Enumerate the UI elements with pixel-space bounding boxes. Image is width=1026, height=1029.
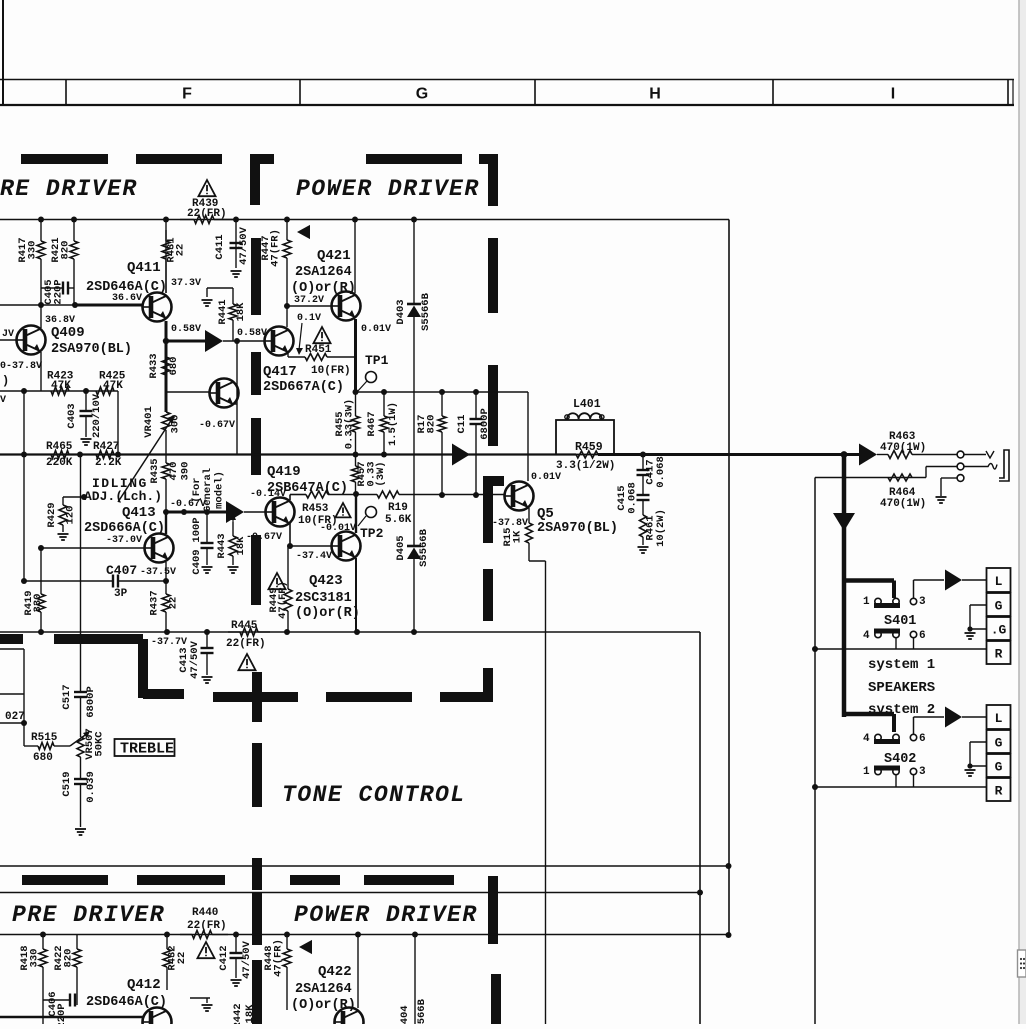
svg-text:22: 22 bbox=[175, 244, 187, 257]
TREBLE boxed label bbox=[115, 739, 175, 758]
svg-text:R442: R442 bbox=[232, 1003, 244, 1024]
svg-text:36.6V: 36.6V bbox=[112, 293, 142, 304]
resistor R447 bbox=[283, 220, 291, 307]
svg-text:470: 470 bbox=[168, 462, 180, 481]
output jack tip bbox=[964, 451, 994, 458]
svg-text:330: 330 bbox=[29, 949, 41, 968]
POWER DRIVER block left dashed border bbox=[251, 238, 261, 605]
label SPEAKERS bbox=[868, 680, 935, 696]
svg-text:POWER DRIVER: POWER DRIVER bbox=[296, 176, 480, 202]
label C403 value bbox=[66, 393, 103, 438]
svg-text:4: 4 bbox=[863, 630, 870, 642]
capacitor C415 bbox=[637, 495, 650, 515]
label Q419 bbox=[267, 464, 301, 480]
ground for R429 bbox=[58, 534, 69, 540]
ground for C519 bbox=[75, 829, 86, 835]
wire: treble line bbox=[24, 745, 38, 747]
svg-text:R451: R451 bbox=[305, 344, 332, 356]
label R467 value bbox=[366, 402, 399, 446]
switch S402 contacts row1 bbox=[863, 733, 926, 745]
wire: Q417 emitter join bbox=[287, 352, 289, 357]
wire: S402 feed bbox=[844, 714, 894, 732]
wire: R429 top link bbox=[63, 494, 87, 500]
svg-text:10(FR): 10(FR) bbox=[311, 365, 351, 377]
grid column label I bbox=[891, 86, 895, 103]
label R464 bbox=[880, 487, 926, 510]
label 0.58V (left) bbox=[171, 324, 201, 335]
svg-text:0.068: 0.068 bbox=[627, 482, 639, 514]
svg-text:22: 22 bbox=[176, 952, 188, 965]
svg-text:47(FR): 47(FR) bbox=[277, 581, 289, 619]
wire: Q411 emitter column bbox=[165, 321, 168, 341]
resistor R445 bbox=[228, 628, 270, 636]
transistor Q421 bbox=[332, 292, 361, 321]
wire: Q421 base line bbox=[287, 305, 333, 307]
svg-text:L: L bbox=[995, 711, 1003, 726]
label Q421 type bbox=[295, 265, 352, 280]
svg-text:820: 820 bbox=[60, 241, 72, 260]
svg-text:Q411: Q411 bbox=[127, 260, 161, 276]
node: rail corner bottom bbox=[697, 890, 703, 896]
svg-text:2SA970(BL): 2SA970(BL) bbox=[537, 521, 618, 536]
POWER DRIVER block right border step corner bbox=[483, 476, 504, 543]
svg-text:R445: R445 bbox=[231, 620, 258, 632]
section title TONE CONTROL bbox=[282, 782, 466, 808]
svg-text:2SD667A(C): 2SD667A(C) bbox=[263, 380, 344, 395]
label Q5 voltage bbox=[492, 518, 528, 529]
ground for R443 bbox=[228, 567, 239, 573]
label R445 bbox=[226, 620, 266, 650]
label Q422 type bbox=[295, 982, 352, 997]
label R15 value bbox=[502, 528, 524, 547]
label Q423 type bbox=[295, 591, 352, 606]
inductor L401 coil bbox=[565, 413, 604, 419]
svg-text:S402: S402 bbox=[884, 752, 916, 767]
svg-text:G: G bbox=[416, 86, 428, 103]
resistor R421 bbox=[70, 220, 78, 306]
svg-text:V: V bbox=[0, 395, 6, 406]
wire: TP2 line bbox=[290, 495, 505, 501]
arrow from IDLING to VR401 bbox=[118, 415, 175, 502]
svg-text:1.5(1W): 1.5(1W) bbox=[387, 402, 399, 446]
label Q421 bbox=[317, 248, 351, 264]
svg-text:PRE DRIVER: PRE DRIVER bbox=[12, 902, 165, 928]
svg-text:Q417: Q417 bbox=[263, 364, 297, 380]
label S401 bbox=[884, 614, 916, 629]
resistor R467 bbox=[380, 392, 388, 455]
svg-text:2SA1264: 2SA1264 bbox=[295, 265, 352, 280]
label Q409 bbox=[51, 325, 85, 341]
svg-text:47K: 47K bbox=[103, 380, 123, 392]
svg-text:3P: 3P bbox=[114, 588, 128, 600]
ground for sys1 bbox=[965, 633, 976, 639]
wire: 37V mid line bbox=[356, 391, 529, 393]
svg-text:system 1: system 1 bbox=[868, 657, 935, 673]
node: drive junction bbox=[234, 338, 240, 344]
label R437 value bbox=[149, 590, 180, 615]
label R435 values bbox=[168, 462, 226, 513]
ground for C413 bbox=[202, 677, 213, 683]
svg-text:VR401: VR401 bbox=[143, 406, 155, 438]
svg-text:470(1W): 470(1W) bbox=[880, 498, 926, 510]
svg-text:3.3(1/2W): 3.3(1/2W) bbox=[556, 460, 615, 472]
ground for C403 bbox=[81, 439, 92, 445]
inductor L401 box bbox=[556, 420, 614, 455]
transistor Q409 bbox=[17, 326, 46, 355]
transistor Q5 bbox=[505, 482, 534, 511]
node: mid line junctions bbox=[353, 389, 480, 458]
transistor Q411 bbox=[143, 293, 172, 322]
wire: +37V top rail bbox=[0, 219, 729, 221]
svg-text:R453: R453 bbox=[302, 503, 329, 515]
POWER DRIVER block bottom-right corner bbox=[440, 668, 493, 702]
svg-text:50KC: 50KC bbox=[94, 731, 106, 757]
PRE DRIVER block bottom dashed border bbox=[0, 634, 184, 699]
signal arrow on output rail bbox=[452, 444, 470, 466]
svg-text:D405: D405 bbox=[395, 535, 407, 560]
label S402 bbox=[884, 752, 916, 767]
svg-text:22: 22 bbox=[168, 597, 180, 610]
wire: Q413 collector bbox=[163, 509, 169, 534]
svg-text:47/50V: 47/50V bbox=[241, 940, 253, 979]
wire: Q411 base line bbox=[0, 304, 143, 306]
label R449 value bbox=[268, 581, 289, 619]
svg-text:Q409: Q409 bbox=[51, 325, 85, 341]
svg-text:L: L bbox=[995, 574, 1003, 589]
test point TP1 bbox=[357, 353, 389, 392]
svg-text:G: G bbox=[995, 760, 1003, 775]
svg-text:1: 1 bbox=[863, 596, 870, 608]
ground for jack bbox=[936, 497, 947, 503]
svg-text:C403: C403 bbox=[66, 403, 78, 428]
svg-text:S5566B: S5566B bbox=[420, 292, 432, 331]
svg-text:Q5: Q5 bbox=[537, 506, 554, 522]
node: emitter node bbox=[353, 389, 359, 395]
svg-text:390: 390 bbox=[180, 462, 192, 481]
label Q421 option bbox=[291, 281, 356, 296]
wire: S401 return line bbox=[812, 646, 986, 652]
resistor R19 bbox=[377, 491, 399, 498]
resistor R429 bbox=[59, 497, 67, 532]
label D405 bbox=[395, 528, 430, 567]
POWER DRIVER block right dashed border bbox=[488, 238, 498, 446]
resistor R423 bbox=[51, 387, 69, 395]
svg-text:F: F bbox=[182, 86, 192, 103]
node: base line junctions bbox=[38, 302, 78, 308]
label C405 value bbox=[43, 279, 65, 304]
label R463 bbox=[880, 431, 926, 454]
signal arrow on drive line bbox=[205, 330, 223, 352]
label system 2 bbox=[868, 702, 935, 718]
capacitor C405 bbox=[41, 282, 74, 295]
svg-text:-0.67V: -0.67V bbox=[199, 420, 235, 431]
label C406 value bbox=[47, 991, 68, 1028]
resistor R457 bbox=[352, 455, 360, 495]
bottom POWER DRIVER right dashed border bbox=[488, 876, 501, 1024]
label Q411 type bbox=[86, 280, 167, 295]
svg-text:JV: JV bbox=[2, 329, 14, 340]
label R-18K bottom bbox=[232, 1003, 256, 1028]
node: C407 line left bbox=[21, 578, 27, 584]
label 0.01V (Q5) bbox=[531, 472, 561, 483]
arrow R443 to line bbox=[230, 513, 236, 522]
svg-text:TP1: TP1 bbox=[365, 353, 389, 368]
label Q422 option bbox=[291, 998, 356, 1013]
label Q409 type bbox=[51, 342, 132, 357]
svg-text:D403: D403 bbox=[395, 299, 407, 324]
POWER DRIVER block top-right corner bbox=[479, 154, 498, 206]
svg-text:680: 680 bbox=[168, 357, 180, 376]
resistor R448 bbox=[283, 935, 291, 1011]
resistor R464 bbox=[888, 474, 912, 481]
label R19 bbox=[385, 502, 412, 526]
svg-text:ADJ.(Lch.): ADJ.(Lch.) bbox=[84, 489, 162, 504]
label R421 value bbox=[50, 237, 72, 262]
label Q412 type bbox=[86, 995, 167, 1010]
resistor R427 bbox=[96, 451, 114, 459]
transistor Q415 bbox=[210, 379, 239, 408]
svg-text:22(FR): 22(FR) bbox=[187, 208, 227, 220]
transistor Q413 bbox=[145, 534, 174, 563]
label Q422 bbox=[318, 964, 352, 980]
ground for R461 bbox=[638, 547, 649, 553]
svg-text:S401: S401 bbox=[884, 614, 916, 629]
svg-text:R: R bbox=[995, 784, 1003, 799]
label C409 value bbox=[191, 517, 203, 574]
label C413 value bbox=[178, 640, 201, 679]
ground for C411 bbox=[231, 271, 242, 277]
svg-text:C519: C519 bbox=[61, 771, 73, 796]
diode D405 bbox=[407, 546, 421, 559]
ground for C412 bbox=[231, 980, 242, 986]
resistor R422 bbox=[73, 935, 81, 996]
wire: Q409 collector bbox=[40, 305, 42, 328]
svg-text:0.33(3W): 0.33(3W) bbox=[344, 399, 356, 449]
svg-text:C407: C407 bbox=[106, 563, 137, 578]
POWER DRIVER block right dashed border lower bbox=[483, 569, 493, 621]
resistor R419 bbox=[37, 548, 45, 632]
svg-text:Q423: Q423 bbox=[309, 573, 343, 589]
svg-text:0.01V: 0.01V bbox=[361, 324, 391, 335]
svg-text:22(FR): 22(FR) bbox=[187, 920, 227, 932]
label C411 value bbox=[214, 226, 250, 265]
wire: Q422 collector bbox=[357, 935, 359, 1009]
svg-text:1K: 1K bbox=[512, 530, 524, 543]
label Q411 bbox=[127, 260, 161, 276]
svg-text:-37.4V: -37.4V bbox=[296, 551, 332, 562]
svg-text:G: G bbox=[995, 736, 1003, 751]
wire: -37V bottom rail bbox=[0, 631, 700, 633]
wire: C517 column upper bbox=[80, 455, 82, 693]
signal arrow to speakers bbox=[859, 444, 877, 466]
svg-text:R: R bbox=[995, 647, 1003, 662]
svg-text:3: 3 bbox=[919, 596, 926, 608]
label VR507 bbox=[84, 728, 106, 760]
svg-text:R435: R435 bbox=[149, 458, 161, 483]
label Q411 voltage 37.3V bbox=[171, 278, 201, 289]
transistor Q422 bbox=[335, 1008, 364, 1029]
svg-text:680: 680 bbox=[33, 752, 53, 764]
resistor R437 bbox=[162, 581, 170, 632]
label Q419 type bbox=[267, 481, 348, 496]
wire: R447-Q421 base column bbox=[284, 303, 290, 327]
svg-text:-0.67V: -0.67V bbox=[246, 532, 282, 543]
wire: Q409 base stub bbox=[0, 339, 17, 341]
wire: R433 column bbox=[165, 341, 168, 412]
capacitor C417 bbox=[637, 455, 650, 496]
wire: left edge stubs bbox=[0, 649, 27, 746]
svg-text:37.2V: 37.2V bbox=[294, 295, 324, 306]
label edge paren bbox=[2, 374, 9, 388]
label R431 value bbox=[166, 237, 187, 262]
label Q409 voltage 36.8V bbox=[45, 315, 75, 326]
left arrow marker (top) bbox=[297, 225, 310, 239]
label R427 bbox=[93, 441, 122, 469]
svg-text:47K: 47K bbox=[51, 380, 71, 392]
wire: rail corner vertical bbox=[699, 632, 701, 1024]
svg-text:S5566B: S5566B bbox=[418, 528, 430, 567]
resistor R461 bbox=[640, 515, 647, 545]
wire: right vertical feed bbox=[728, 220, 730, 936]
svg-text:(3W): (3W) bbox=[375, 461, 387, 486]
speaker terminal box L (sys2) bbox=[987, 705, 1011, 729]
warning symbol near R453 bbox=[335, 503, 350, 517]
wire: Q5 collector riser bbox=[527, 392, 529, 481]
svg-text:R467: R467 bbox=[366, 411, 378, 436]
wire: Q413 emitter bbox=[165, 562, 167, 581]
svg-text:100P: 100P bbox=[191, 517, 203, 542]
label Q413 bbox=[122, 505, 156, 521]
label VR401 bbox=[143, 406, 182, 438]
ground for sys2 bbox=[965, 770, 976, 776]
svg-text:1: 1 bbox=[863, 766, 870, 778]
svg-text:C412: C412 bbox=[218, 945, 230, 970]
resistor R465 bbox=[51, 451, 69, 459]
label C519 value bbox=[61, 771, 97, 803]
svg-text:47(FR): 47(FR) bbox=[270, 229, 282, 267]
resistor R439 bbox=[180, 216, 236, 224]
svg-text:47/50V: 47/50V bbox=[189, 640, 201, 679]
svg-text:.G: .G bbox=[991, 623, 1007, 638]
svg-text:D404: D404 bbox=[399, 1005, 411, 1024]
resistor R451 bbox=[288, 354, 356, 361]
wire: bottom supply rail bbox=[0, 934, 728, 936]
label C415 value bbox=[616, 482, 639, 514]
label C517 value bbox=[61, 684, 97, 717]
transistor Q412 bbox=[143, 1008, 172, 1029]
svg-text:): ) bbox=[2, 374, 9, 388]
wire: Q412 base line bbox=[0, 1016, 143, 1019]
node: C409 junction bbox=[181, 509, 210, 515]
svg-text:H: H bbox=[649, 86, 661, 103]
svg-text:6800P: 6800P bbox=[479, 408, 491, 440]
wire: arrow to L box 2 bbox=[962, 716, 986, 718]
svg-text:0.58V: 0.58V bbox=[171, 324, 201, 335]
node: C417 junction bbox=[640, 452, 646, 458]
resistor R431 bbox=[162, 230, 170, 293]
node: output junction bbox=[841, 451, 848, 458]
resistor R418 bbox=[39, 935, 47, 1025]
wire: Q409 emitter bbox=[40, 352, 42, 391]
wire: Q411 collector bbox=[165, 220, 167, 294]
svg-text:6: 6 bbox=[919, 630, 926, 642]
capacitor C517 bbox=[74, 692, 87, 737]
wire: Q421 collector bbox=[354, 220, 356, 294]
svg-text:R433: R433 bbox=[148, 353, 160, 378]
bottom section boundary lines bbox=[0, 866, 728, 893]
left arrow marker (bottom) bbox=[299, 940, 312, 954]
svg-text:6: 6 bbox=[919, 733, 926, 745]
resistor R455 bbox=[352, 392, 360, 455]
label Q423 option bbox=[295, 606, 360, 621]
svg-text:R441: R441 bbox=[217, 299, 229, 324]
svg-text:4: 4 bbox=[863, 733, 870, 745]
label edge -37.8V bbox=[0, 361, 42, 372]
svg-text:G: G bbox=[995, 599, 1003, 614]
wire: output rail bbox=[0, 453, 860, 455]
svg-text:120: 120 bbox=[65, 506, 77, 525]
resistor R449 bbox=[284, 543, 293, 632]
switch S401 contacts row2 bbox=[863, 629, 926, 643]
label R432 value bbox=[167, 945, 189, 970]
label R433 value bbox=[148, 353, 180, 378]
capacitor C406 bbox=[43, 994, 77, 1007]
label L401 bbox=[573, 398, 601, 411]
svg-text:2.2K: 2.2K bbox=[95, 457, 122, 469]
svg-text:Q412: Q412 bbox=[127, 977, 161, 993]
border frame: top coordinate band bbox=[0, 0, 1014, 105]
svg-text:C411: C411 bbox=[214, 234, 226, 259]
wire: 0.58V drive line bbox=[166, 340, 264, 343]
label Q417 bbox=[263, 364, 351, 380]
ground bracket sys1 bbox=[967, 605, 986, 632]
capacitor C409 bbox=[201, 512, 214, 565]
label R451 bbox=[305, 344, 332, 356]
label Q423 bbox=[309, 573, 343, 589]
label R419 value bbox=[23, 590, 44, 615]
wire: D404 column bbox=[414, 935, 416, 1025]
label Q419 voltage bbox=[250, 489, 286, 500]
node: R17/C11 bottom bbox=[439, 492, 479, 498]
svg-text:330: 330 bbox=[32, 594, 44, 613]
variable resistor VR401 bbox=[162, 412, 170, 430]
switch S402 contacts row2 bbox=[863, 766, 926, 779]
svg-text:820: 820 bbox=[426, 415, 438, 434]
resistor R463 bbox=[877, 451, 957, 459]
capacitor C413 bbox=[201, 632, 214, 675]
svg-text:RE DRIVER: RE DRIVER bbox=[0, 176, 138, 202]
capacitor C407 bbox=[24, 575, 166, 588]
svg-text:R440: R440 bbox=[192, 907, 218, 919]
capacitor C412 bbox=[230, 935, 243, 979]
label Q415 voltage -0.67V bbox=[199, 420, 235, 431]
transistor Q423 bbox=[332, 532, 361, 561]
svg-text:-37.8V: -37.8V bbox=[492, 518, 528, 529]
svg-text:-37.7V: -37.7V bbox=[151, 637, 187, 648]
section title PRE DRIVER (bottom) bbox=[12, 902, 165, 928]
svg-text:-0.67V: -0.67V bbox=[170, 499, 206, 510]
wire: S401 row2 drops bbox=[896, 638, 914, 649]
warning symbol above R449 bbox=[268, 573, 285, 589]
wire: bottom rail junctions bbox=[40, 932, 418, 938]
svg-text:-0.01V: -0.01V bbox=[320, 523, 356, 534]
wire: Q419 emitter to Q423 base bbox=[290, 523, 332, 546]
warning symbol near R451 bbox=[313, 327, 330, 343]
resistor R440 bbox=[180, 931, 228, 939]
svg-text:22(FR): 22(FR) bbox=[226, 638, 266, 650]
svg-text:0.039: 0.039 bbox=[85, 771, 97, 803]
warning symbol below R440 bbox=[197, 942, 214, 958]
